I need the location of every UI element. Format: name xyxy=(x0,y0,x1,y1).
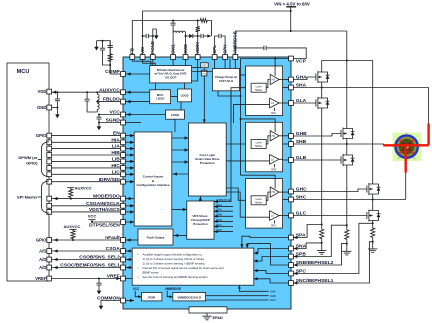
svg-text:GPIO: GPIO xyxy=(36,133,47,138)
svg-text:VREF: VREF xyxy=(35,276,47,281)
IC right pin squares and labels xyxy=(289,56,334,285)
wires core logic to gate driver C xyxy=(226,188,245,217)
wire COMMON stub xyxy=(125,299,134,302)
wire SNC to shunt C bottom xyxy=(293,242,373,283)
wire nFAULT to MCU GPIO xyxy=(51,238,120,241)
BLDC motor M1 xyxy=(393,133,422,162)
wire Q1 drain to bridge rail xyxy=(321,61,323,71)
wire buck-boost to MCU LDO xyxy=(155,83,157,90)
VDS shoot-through OCP protection block xyxy=(187,201,214,239)
wire PGND top pin into buck-boost xyxy=(152,59,154,65)
svg-text:2) Up to 3-phase current sensi: 2) Up to 3-phase current sensing + BEMF … xyxy=(143,261,206,265)
wire Q5 drain to bridge rail xyxy=(372,61,374,183)
COMP compensation network xyxy=(97,40,121,74)
wire VM top pin into buck-boost xyxy=(143,59,156,65)
motor phase lead C (red) xyxy=(405,147,407,173)
wire COMP to buck-boost xyxy=(125,72,150,75)
transistor Q4 low-side phase B xyxy=(341,153,355,167)
svg-text:LDO3: LDO3 xyxy=(181,94,189,98)
sample hold line SHB xyxy=(206,294,276,298)
ground arrow for COMP network xyxy=(94,44,99,50)
EPAD pad bar xyxy=(189,307,227,320)
wire GHA to Q1 gate xyxy=(293,77,316,80)
wire CSOB to MCU A/D xyxy=(51,258,120,261)
svg-text:SPA: SPA xyxy=(271,112,276,115)
svg-text:VCP UVLO: VCP UVLO xyxy=(219,79,234,83)
wire GHB to Q3 gate xyxy=(293,134,341,137)
wires core logic to gate driver B xyxy=(226,144,245,161)
pull-up resistor R2 on MODE/SDO to AUXVCC xyxy=(67,186,92,199)
wire SW2 top pin into buck-boost xyxy=(185,59,187,65)
signal wires MCU to IC xyxy=(51,136,120,212)
fault output block xyxy=(138,229,173,245)
svg-text:SPI Master: SPI Master xyxy=(17,195,38,200)
VIN supply bar and drop wire xyxy=(286,7,296,32)
control inputs and configuration interface block xyxy=(134,132,172,226)
wire CPH into charge pump xyxy=(224,59,226,68)
gate driver block phase C xyxy=(246,179,283,229)
wire GLB to Q4 gate xyxy=(293,159,341,161)
svg-text:SPC: SPC xyxy=(216,228,222,232)
wire VCC with capacitor C3 xyxy=(97,114,121,125)
ground arrow for COMMON xyxy=(99,303,104,309)
transistor Q3 high-side phase B xyxy=(341,127,355,141)
wire SPA to shunt A top xyxy=(293,225,322,238)
wire MODE/SDO to MCU xyxy=(51,197,120,200)
VIN supply label xyxy=(274,1,310,6)
svg-text:POR: POR xyxy=(148,295,155,299)
wire SGND stub xyxy=(125,122,141,124)
IC top pin squares and labels xyxy=(130,31,238,59)
wire SPB to shunt B top xyxy=(293,225,347,256)
svg-text:GND: GND xyxy=(37,105,46,110)
wire SNC into amplifiers xyxy=(254,277,298,284)
svg-text:AUXVCC: AUXVCC xyxy=(64,224,81,229)
wire SHA node xyxy=(293,84,428,124)
SPI Master group brace xyxy=(17,181,49,213)
wire Q6 source down to shunt C xyxy=(372,222,374,226)
wire SHC node xyxy=(293,172,406,209)
transistor Q6 low-side phase C xyxy=(367,209,381,223)
wire SPB into amplifiers xyxy=(254,255,298,263)
ground arrow PGND xyxy=(154,33,159,39)
wire DTPSEL/SEN xyxy=(92,221,121,223)
pull-up resistor R1 on nFault to AUXVCC xyxy=(64,224,81,240)
charge pump block xyxy=(212,69,239,91)
wire VREF input to amplifiers xyxy=(116,277,132,280)
wire CSOC to MCU A/D xyxy=(51,266,120,269)
wire MODE/SDO output from control block xyxy=(125,197,134,200)
wire OSC to TSD xyxy=(203,68,205,71)
shunt resistor R7 phase C xyxy=(371,226,375,249)
svg-text:SPB: SPB xyxy=(271,168,276,171)
oscillator block OSC xyxy=(201,63,209,68)
wire SPA into amplifiers xyxy=(240,236,297,248)
svg-text:See the Current Sensing and BE: See the Current Sensing and BEMF Sensing… xyxy=(143,275,209,279)
wire buck-boost to OSC xyxy=(192,67,201,69)
wire SPC into amplifiers xyxy=(254,269,298,275)
wire VMBRDGE pin into charge pump xyxy=(234,59,236,68)
wire COMMON to ground xyxy=(101,301,121,304)
wire CPL into charge pump xyxy=(214,59,216,68)
VCC to POR wire xyxy=(133,287,142,298)
wire SNB to shunt B bottom xyxy=(293,244,347,265)
svg-text:SHA: SHA xyxy=(270,290,276,294)
wire SW1 top pin into buck-boost xyxy=(172,59,174,65)
svg-text:A/D: A/D xyxy=(39,265,46,270)
svg-text:Internal S/H of sensed signal: Internal S/H of sensed signal can be ena… xyxy=(143,266,224,270)
svg-text:•: • xyxy=(138,275,139,279)
sample hold line SHC xyxy=(206,298,276,302)
wires control block to core logic xyxy=(172,136,189,175)
gate driver block phase A xyxy=(246,66,283,116)
gate driver block phase B xyxy=(246,122,283,172)
wire fault output to nFAULT pin xyxy=(125,238,138,241)
wires gate driver B to GHB SHB GLB pins xyxy=(283,136,289,160)
svg-text:LDOH: LDOH xyxy=(171,113,179,117)
wire FBLDO xyxy=(97,101,121,103)
svg-text:UV, OCP: UV, OCP xyxy=(165,76,177,80)
svg-text:OSC: OSC xyxy=(202,65,207,68)
svg-text:SHB: SHB xyxy=(270,294,276,298)
svg-text:SHA: SHA xyxy=(216,203,222,207)
flying capacitor C7 CPL to CPH xyxy=(215,34,226,55)
buck-boost block xyxy=(150,66,192,83)
svg-text:•: • xyxy=(138,252,139,256)
svg-text:SHB: SHB xyxy=(216,213,222,217)
wire VCC from LDOH xyxy=(125,113,165,116)
wire Q2 source down to shunt A xyxy=(321,110,323,228)
svg-text:Protection: Protection xyxy=(200,161,215,165)
svg-text:VCC: VCC xyxy=(88,213,97,218)
LDO3 block xyxy=(178,89,192,102)
DPWM (or GPIO) group brace xyxy=(18,142,49,177)
EPAD ground xyxy=(202,313,211,320)
svg-text:LDO5: LDO5 xyxy=(156,97,164,101)
LDOH block xyxy=(166,110,185,119)
wire SHB node xyxy=(293,141,383,154)
wire VDS block to fault output xyxy=(173,234,187,237)
wire GHC to Q5 gate xyxy=(293,189,367,192)
wire buck-boost to LDO3 xyxy=(184,83,186,89)
svg-text:BEMF sense: BEMF sense xyxy=(143,270,159,274)
ground arrow at MCU xyxy=(55,112,60,118)
transistor Q5 high-side phase C xyxy=(367,182,381,196)
wire CSOA output xyxy=(125,249,132,252)
wire Q4 source down to shunt B xyxy=(346,167,348,228)
wire MCU VDD to AUXVCC xyxy=(51,91,120,94)
svg-text:SPC: SPC xyxy=(271,225,276,228)
wire TSD to core logic xyxy=(203,76,206,123)
wire SNB into amplifiers xyxy=(246,244,298,267)
input capacitor C5 VM to PGND xyxy=(143,34,153,39)
wire VREF from MCU with capacitor C4 xyxy=(51,278,120,289)
wire FB top pin into buck-boost xyxy=(132,59,151,65)
diode D1 SW2 to VDRV xyxy=(186,34,199,38)
wires logic inputs EN HIA LIA HIB LIB HIC LIC SDI SCLK nSCS DTPSEL into control block xyxy=(125,134,134,224)
wire CSOA to MCU A/D xyxy=(51,249,120,252)
wire PGND xyxy=(152,29,157,55)
svg-text:VMBRDGE: VMBRDGE xyxy=(165,287,181,291)
VDS block sense inputs VMBRDGE SHA SPA SHB SPB SHC SPC xyxy=(214,198,233,233)
VMBRDGEUVLO block xyxy=(173,293,206,301)
wire control block to VDS block xyxy=(172,208,187,211)
svg-text:VDD: VDD xyxy=(38,89,47,94)
wire FBLDO from MCU LDO xyxy=(125,100,150,103)
IC left pin squares and labels xyxy=(60,69,125,303)
wire VDRV top pin into buck-boost right side xyxy=(192,59,198,81)
svg-text:EPAD: EPAD xyxy=(213,316,224,320)
svg-text:SPA: SPA xyxy=(216,208,222,212)
wire CSOB output xyxy=(125,258,132,261)
svg-text:DTPSEL/SEN: DTPSEL/SEN xyxy=(89,223,120,229)
wire SGND xyxy=(99,122,121,124)
wire SNA to shunt A bottom xyxy=(293,243,322,249)
svg-text:TSD: TSD xyxy=(202,73,207,75)
svg-text:1) Up to 3-phase current sensi: 1) Up to 3-phase current sensing (Shunt … xyxy=(143,257,204,261)
TSD block xyxy=(201,70,207,76)
wire SPC to shunt C top xyxy=(293,223,373,273)
svg-text:SHC: SHC xyxy=(216,223,222,227)
ground arrow at SGND xyxy=(97,124,102,130)
bridge supply rail xyxy=(322,31,373,62)
ground shunt A xyxy=(317,251,326,255)
wires core logic to gate driver A xyxy=(231,88,246,123)
MCU pins xyxy=(35,89,51,281)
wire MCU GND xyxy=(51,107,57,109)
wire CSOC output xyxy=(125,266,132,269)
wire AUXVCC from MCU LDO xyxy=(125,91,150,94)
wire VDS block to core logic xyxy=(199,196,202,201)
wire charge pump to gate driver A xyxy=(240,74,246,76)
shunt resistor R5 phase A xyxy=(320,228,324,251)
svg-text:SPB: SPB xyxy=(216,218,222,222)
VMBRDGE to VMBRDGEUVLO wire xyxy=(165,287,181,298)
wire charge pump to VCP rail xyxy=(229,59,231,69)
inductor L2 AUXVCC to FBLDO xyxy=(96,92,99,112)
svg-text:VMBRDGEUVLO: VMBRDGEUVLO xyxy=(177,295,201,299)
svg-text:VCC: VCC xyxy=(133,287,140,291)
wire buck-boost to charge pump xyxy=(192,71,213,73)
wire charge pump down to driver rail xyxy=(218,91,242,97)
ground shunt B xyxy=(342,251,351,255)
VCC tie for DTPSEL/SEN xyxy=(88,213,97,223)
sample hold line SHA xyxy=(238,285,276,293)
wire LDOH to control block xyxy=(174,119,176,132)
VCP capacitor C8 xyxy=(235,46,306,59)
svg-text:GPIO): GPIO) xyxy=(26,160,38,165)
svg-text:VCP: VCP xyxy=(296,58,307,64)
wire MCU LDO to LDO3 xyxy=(171,96,178,98)
svg-text:A/D: A/D xyxy=(39,257,46,262)
buck inductor L1 SW1 to SW2 xyxy=(173,31,186,55)
wire VMBRDGE rail charge pump to VDS block xyxy=(214,91,231,203)
ground shunt C xyxy=(368,249,377,253)
wires gate driver A to GHA SHA GLA pins xyxy=(283,80,289,104)
wire VMBRDGE to VM rail xyxy=(234,31,346,55)
svg-text:MCU: MCU xyxy=(17,69,30,75)
feedback resistor R4 to VDRV xyxy=(196,21,200,37)
wire VDRV xyxy=(197,36,199,55)
svg-text:Amplifier stages support flexi: Amplifier stages support flexible config… xyxy=(143,252,203,256)
motor phase lead B and horizontal red axis xyxy=(383,144,428,146)
transistor Q1 high-side phase A xyxy=(316,70,330,84)
motor phase lead A (red) xyxy=(427,124,429,146)
svg-text:Protection: Protection xyxy=(193,222,208,226)
core logic smart gate drive protection block xyxy=(189,123,227,196)
POR block xyxy=(142,293,162,301)
wires gate driver C to GHC SHC GLC pins xyxy=(283,192,289,216)
wire LDO3 to LDOH xyxy=(180,102,182,110)
svg-text:VMBRDGE: VMBRDGE xyxy=(216,198,231,202)
transistor Q2 low-side phase A xyxy=(316,96,330,110)
wire GLC to Q6 gate xyxy=(293,215,367,217)
capacitor C2 on AUXVCC xyxy=(85,92,98,112)
amplifier note box xyxy=(132,248,254,285)
wire GLA to Q2 gate xyxy=(293,102,316,104)
wire SNA into amplifiers xyxy=(254,247,298,255)
svg-text:GPIO: GPIO xyxy=(36,238,47,243)
capacitor C6 on VDRV node xyxy=(198,34,212,39)
svg-text:A/D: A/D xyxy=(39,249,46,254)
svg-text:SHC: SHC xyxy=(270,298,276,302)
gate driver IC U1 (blue block) xyxy=(123,57,291,309)
VCP rail to HS drivers xyxy=(240,58,289,179)
ground arrow for VREF capacitor xyxy=(97,288,102,294)
svg-text:AUXVCC: AUXVCC xyxy=(75,186,92,191)
wire VM rail xyxy=(142,11,291,55)
svg-text:Fault Output: Fault Output xyxy=(147,236,165,240)
wire FB divider line xyxy=(132,20,211,55)
svg-text:Configuration Interface: Configuration Interface xyxy=(136,183,169,187)
svg-text:VIN = 4.5V to 60V: VIN = 4.5V to 60V xyxy=(274,1,310,6)
feedforward capacitor C9 FB to SW1 xyxy=(171,20,176,34)
shunt resistor R6 phase B xyxy=(345,228,349,251)
feedback resistor R3 xyxy=(200,19,208,23)
wire Q3 drain to bridge rail xyxy=(346,61,348,127)
svg-text:•: • xyxy=(138,266,139,270)
MCU LDO block xyxy=(150,90,171,104)
MCU block xyxy=(7,63,49,281)
capacitor C1 on AUXVCC at MCU xyxy=(55,92,60,112)
